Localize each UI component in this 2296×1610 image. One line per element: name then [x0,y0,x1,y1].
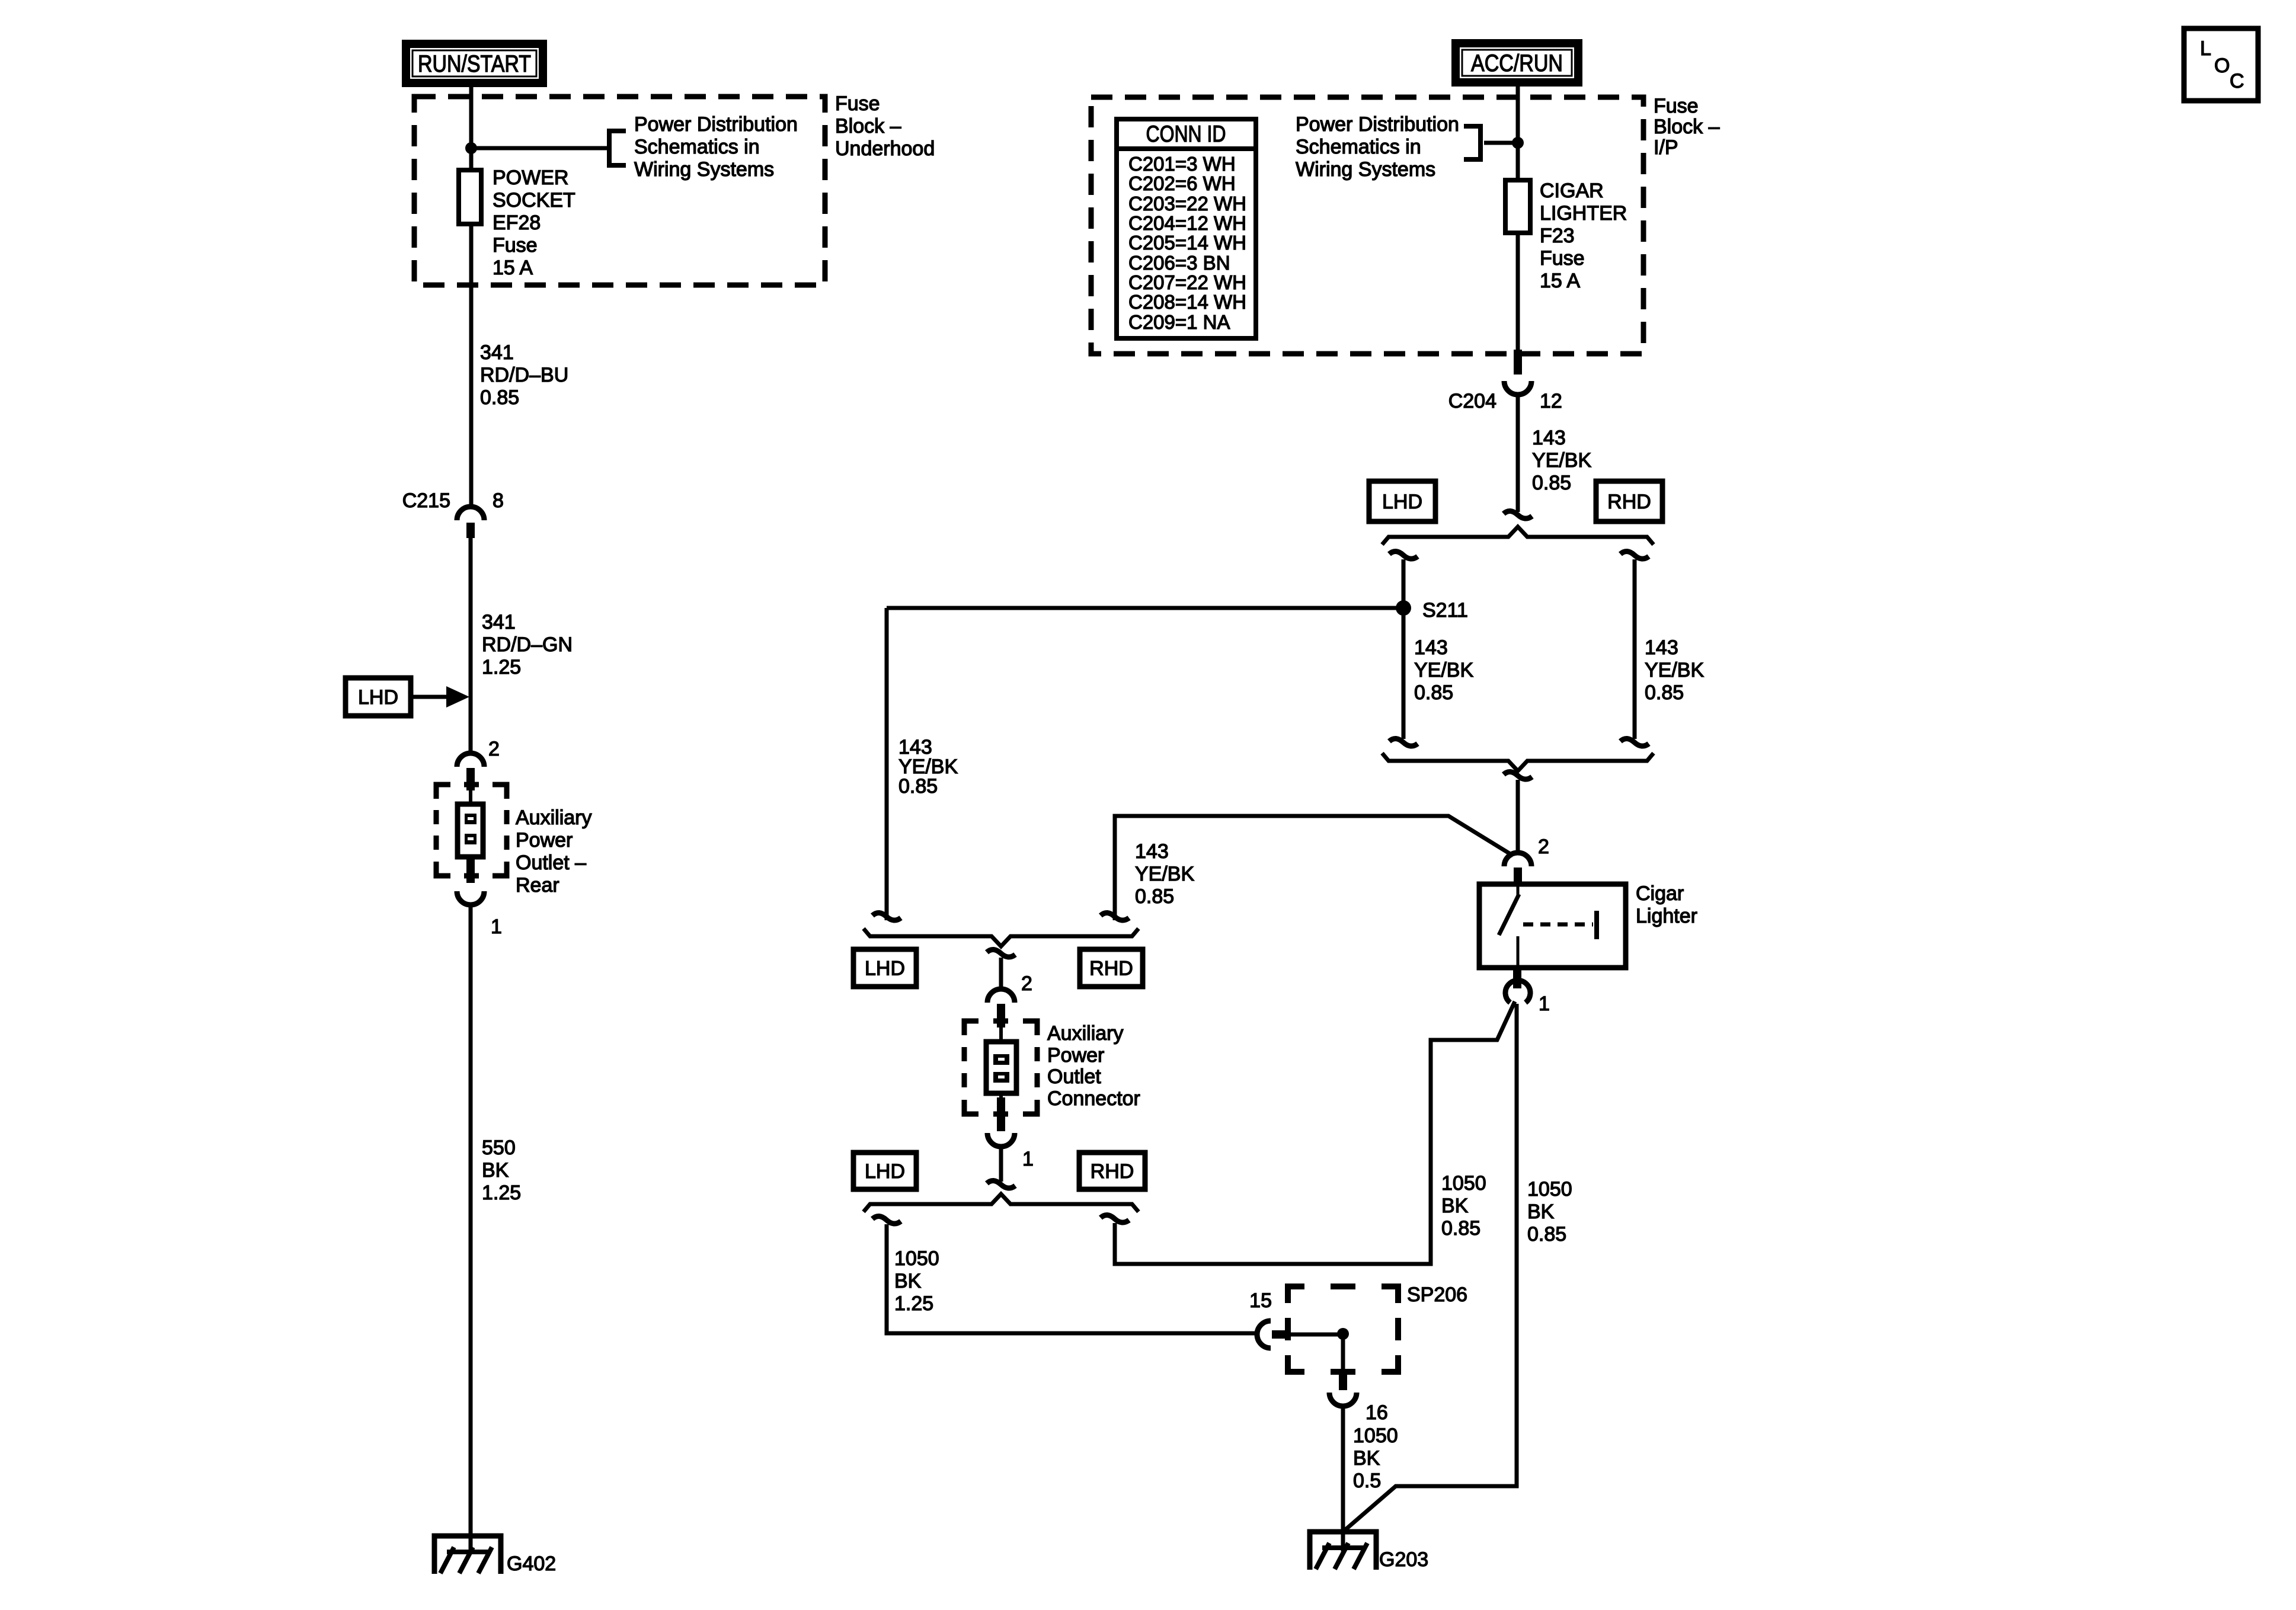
outlet connector pin 1 [987,1097,1034,1170]
svg-text:SP206: SP206 [1407,1283,1467,1306]
wire label 143 YE/BK 0.85 (S211 branch) [1414,636,1473,704]
svg-text:2: 2 [488,738,500,760]
wire label 143 YE/BK 0.85 (corner branch) [1135,840,1194,908]
label Auxiliary Power Outlet Connector [1047,1022,1140,1110]
svg-text:Rear: Rear [516,874,559,897]
svg-text:Lighter: Lighter [1636,905,1697,927]
RHD tag outlet upper [1080,949,1143,987]
svg-text:BK: BK [1353,1447,1380,1470]
svg-text:1050: 1050 [1527,1178,1572,1201]
svg-text:C208=14 WH: C208=14 WH [1128,291,1246,313]
wire label 1050 BK 0.85 (left) [1441,1172,1486,1240]
svg-text:LHD: LHD [1382,491,1422,513]
svg-text:C206=3 BN: C206=3 BN [1128,252,1230,274]
svg-text:143: 143 [1645,636,1678,659]
svg-text:C204: C204 [1448,390,1496,412]
svg-text:Block –: Block – [835,115,901,137]
CONN ID table [1117,119,1256,338]
svg-text:RHD: RHD [1089,958,1133,980]
wire label 143 YE/BK 0.85 (outlet branch) [898,736,958,798]
wire cigar lighter pin1 to G203, 1050 BK 0.85 [1344,1004,1517,1531]
svg-text:0.5: 0.5 [1353,1470,1381,1492]
fuse EF28 POWER SOCKET 15A [459,170,481,224]
svg-text:15 A: 15 A [1540,270,1580,292]
svg-text:1050: 1050 [1353,1425,1398,1447]
svg-text:16: 16 [1366,1401,1388,1424]
wire label 143 YE/BK 0.85 (upper) [1532,427,1591,494]
auxiliary power outlet connector dashed box [964,1021,1037,1114]
svg-text:0.85: 0.85 [898,775,938,798]
splice S211 [1396,599,1468,622]
svg-text:Fuse: Fuse [1654,95,1699,117]
svg-text:LIGHTER: LIGHTER [1540,202,1627,225]
svg-text:Connector: Connector [1047,1087,1140,1110]
wire bracket to cigar lighter pin 2 [1504,772,1532,779]
junction node [1512,137,1524,149]
svg-text:1: 1 [1539,993,1550,1015]
wire label 1050 BK 1.25 [894,1247,939,1315]
wire inside fuse block [469,97,474,173]
svg-text:Fuse: Fuse [493,234,538,257]
svg-text:EF28: EF28 [493,212,541,234]
svg-text:Wiring Systems: Wiring Systems [1296,158,1435,181]
svg-text:L: L [2200,37,2211,60]
fuse block IP dashed box [1091,97,1643,354]
wire C215 to outlet, 341 RD/D-GN [469,538,473,754]
svg-text:143: 143 [1532,427,1566,449]
svg-text:C207=22 WH: C207=22 WH [1128,271,1246,293]
wire to reference bracket right [1484,141,1518,145]
wire S211 down to outlet split [885,608,889,920]
wire ACC/RUN to fuse block IP [1516,87,1520,101]
RHD branch wire [1620,551,1649,559]
svg-text:Fuse: Fuse [835,92,880,115]
svg-text:POWER: POWER [493,167,568,189]
power feed box ACC/RUN [1451,39,1582,87]
wire label 550 BK 1.25 [482,1137,521,1204]
svg-text:BK: BK [1441,1195,1469,1217]
fuse block underhood dashed box [414,97,825,285]
junction node [465,142,477,154]
svg-text:1050: 1050 [1441,1172,1486,1195]
svg-text:RD/D–BU: RD/D–BU [480,364,568,386]
svg-text:Fuse: Fuse [1540,247,1585,270]
label Cigar Lighter [1636,882,1697,927]
svg-text:BK: BK [1527,1201,1555,1223]
svg-text:G402: G402 [507,1553,556,1575]
svg-text:Auxiliary: Auxiliary [516,806,591,829]
ground G203 [1310,1532,1428,1571]
svg-text:YE/BK: YE/BK [1414,659,1473,681]
svg-text:Underhood: Underhood [835,137,935,160]
auxiliary power outlet rear dashed box [436,785,507,876]
svg-text:C215: C215 [402,489,450,512]
svg-text:0.85: 0.85 [1414,681,1453,704]
wire label 341 RD/D-BU 0.85 [480,341,568,409]
reference bracket right [1464,126,1480,159]
svg-text:I/P: I/P [1654,136,1678,159]
svg-text:15: 15 [1249,1289,1272,1312]
svg-text:C204=12 WH: C204=12 WH [1128,212,1246,234]
wire bracket to outlet connector pin 2 [987,949,1015,957]
svg-text:RD/D–GN: RD/D–GN [482,633,573,656]
svg-text:143: 143 [1414,636,1448,659]
svg-text:C202=6 WH: C202=6 WH [1128,172,1236,194]
wire label 1050 BK 0.5 [1353,1425,1398,1492]
wire RUN/START to fuse block [469,87,474,101]
connector C215 pin 8 [402,489,504,538]
wire from LHD outlet branch to cigar lighter [1115,816,1513,920]
svg-text:Schematics in: Schematics in [634,136,760,158]
svg-text:C209=1 NA: C209=1 NA [1128,311,1230,333]
svg-text:1050: 1050 [894,1247,939,1270]
wire fuse to connector C215 [469,224,474,507]
svg-text:LHD: LHD [865,1160,905,1183]
RHD tag upper [1596,481,1662,521]
wire SP206 to pin 16 [1341,1334,1345,1370]
LHD tag outlet lower [853,1153,916,1189]
svg-text:1: 1 [491,916,502,938]
svg-text:Power: Power [516,829,573,852]
note Power Distribution Schematics (right) [1296,113,1459,181]
split bracket outlet upper [872,913,901,920]
svg-text:341: 341 [482,611,516,633]
svg-text:Wiring Systems: Wiring Systems [634,158,774,181]
LHD tag upper [1369,481,1435,521]
svg-text:RHD: RHD [1091,1160,1134,1183]
LHD branch wire to S211 [1389,551,1418,559]
svg-text:Cigar: Cigar [1636,882,1684,905]
svg-text:Outlet: Outlet [1047,1065,1101,1088]
svg-text:Outlet –: Outlet – [516,852,586,874]
merge bracket lower [1382,753,1654,771]
svg-text:Power: Power [1047,1044,1104,1067]
svg-text:S211: S211 [1422,599,1468,622]
wire LHD outlet to SP206, 1050 BK 1.25 [872,1216,901,1224]
merge bracket outlet lower [864,1194,1139,1212]
wire label 1050 BK 0.85 (right) [1527,1178,1572,1246]
wire RHD outlet branch to cigar pin1, 1050 BK 0.85 [1115,1001,1515,1264]
svg-text:YE/BK: YE/BK [1645,659,1704,681]
split bracket upper [1382,527,1654,545]
label CIGAR LIGHTER F23 Fuse 15 A [1540,180,1627,292]
page locator LOC [2184,28,2258,101]
svg-text:0.85: 0.85 [1532,472,1571,494]
LHD tag outlet upper [853,949,916,987]
svg-text:G203: G203 [1379,1548,1428,1571]
svg-text:LHD: LHD [358,686,398,709]
wire to reference bracket [471,146,608,151]
svg-text:15 A: 15 A [493,257,533,279]
svg-text:C203=22 WH: C203=22 WH [1128,193,1246,215]
svg-text:CONN ID: CONN ID [1146,121,1226,147]
outlet connector pin 2 [987,972,1032,1028]
svg-text:0.85: 0.85 [1441,1217,1480,1240]
wire fuse F23 to C204 [1516,233,1520,351]
svg-text:C201=3 WH: C201=3 WH [1128,153,1236,175]
svg-text:12: 12 [1540,390,1562,412]
wire S211 to LHD outlet branch [887,606,1403,610]
svg-text:0.85: 0.85 [480,386,519,409]
svg-text:Power Distribution: Power Distribution [1296,113,1459,136]
ground G402 [434,1536,556,1575]
pin 2 of rear outlet [457,738,500,790]
wire C204 to LHD/RHD split [1516,393,1520,512]
reference bracket [609,131,626,165]
outlet connector element [986,1028,1016,1097]
svg-text:RHD: RHD [1607,491,1651,513]
svg-text:Schematics in: Schematics in [1296,136,1421,158]
connector C204 pin 12 [1448,350,1562,412]
cigar lighter pin 1 [1505,968,1550,1015]
LHD variant tag with arrow [346,678,469,716]
svg-text:2: 2 [1021,972,1032,995]
wire label 341 RD/D-GN 1.25 [482,611,573,678]
label Fuse Block - I/P [1654,95,1720,159]
ground wire 550 BK to G402 [469,904,473,1551]
splice SP206 dashed box [1288,1286,1398,1372]
label Auxiliary Power Outlet - Rear [516,806,591,897]
wire label 143 YE/BK 0.85 (RHD branch) [1645,636,1704,704]
cigar lighter pin 2 [1504,836,1549,884]
svg-text:LHD: LHD [865,958,905,980]
svg-text:SOCKET: SOCKET [493,189,575,212]
svg-text:0.85: 0.85 [1527,1223,1566,1246]
svg-text:550: 550 [482,1137,516,1159]
SP206 pin 16 [1329,1370,1388,1424]
svg-text:8: 8 [493,489,504,512]
RHD tag outlet lower [1079,1153,1145,1189]
note Power Distribution Schematics (left) [634,113,798,181]
svg-text:Block –: Block – [1654,116,1720,138]
label POWER SOCKET EF28 Fuse 15 A [493,167,575,279]
svg-text:Auxiliary: Auxiliary [1047,1022,1123,1045]
svg-text:1.25: 1.25 [482,656,521,678]
svg-text:1.25: 1.25 [482,1182,521,1204]
svg-text:2: 2 [1538,836,1549,858]
svg-text:BK: BK [482,1159,509,1182]
fuse F23 CIGAR LIGHTER 15A [1505,180,1530,233]
wire inside SP206 [1290,1333,1343,1337]
pin 1 of rear outlet [457,859,502,938]
svg-text:Power Distribution: Power Distribution [634,113,798,136]
svg-text:ACC/RUN: ACC/RUN [1471,50,1563,76]
label Fuse Block - Underhood [835,92,935,160]
svg-text:1: 1 [1022,1148,1034,1170]
wire pin1 to split bracket lower [999,1146,1003,1182]
svg-text:F23: F23 [1540,225,1575,247]
svg-text:BK: BK [894,1270,922,1292]
svg-text:0.85: 0.85 [1135,885,1174,908]
svg-text:C: C [2230,70,2244,92]
svg-text:0.85: 0.85 [1645,681,1684,704]
SP206 pin 15 [1249,1289,1290,1348]
svg-text:CIGAR: CIGAR [1540,180,1604,202]
cigar lighter component [1479,884,1626,968]
svg-text:C205=14 WH: C205=14 WH [1128,232,1246,254]
power feed box RUN/START [402,40,547,87]
outlet element rear [458,790,483,860]
svg-text:143: 143 [1135,840,1169,863]
splice node SP206 [1337,1328,1349,1340]
svg-text:O: O [2214,55,2230,77]
svg-text:RUN/START: RUN/START [418,51,531,77]
svg-text:YE/BK: YE/BK [1532,449,1591,472]
svg-text:YE/BK: YE/BK [1135,863,1194,885]
wire inside fuse block IP [1516,97,1520,181]
svg-text:1.25: 1.25 [894,1292,933,1315]
svg-text:341: 341 [480,341,514,364]
ground wire 1050 BK 0.5 to G203 [1341,1406,1345,1551]
